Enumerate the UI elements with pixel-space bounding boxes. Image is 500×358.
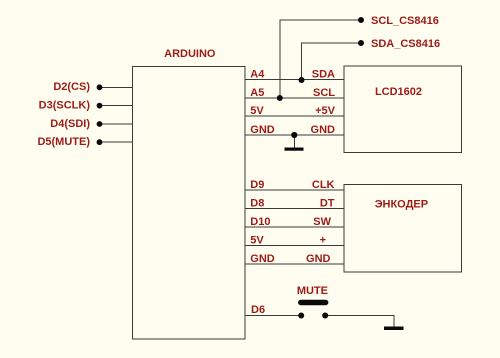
svg-text:ARDUINO: ARDUINO (164, 48, 216, 60)
svg-text:DT: DT (320, 198, 335, 210)
svg-text:SCL_CS8416: SCL_CS8416 (371, 15, 439, 27)
svg-text:A5: A5 (250, 87, 264, 99)
svg-text:A4: A4 (250, 69, 265, 81)
svg-text:+5V: +5V (315, 105, 336, 117)
svg-text:5V: 5V (250, 105, 264, 117)
svg-text:GND: GND (306, 253, 331, 265)
svg-text:D10: D10 (250, 216, 270, 228)
svg-text:MUTE: MUTE (297, 285, 328, 297)
svg-text:GND: GND (250, 124, 274, 136)
svg-text:GND: GND (250, 253, 274, 265)
svg-text:SW: SW (313, 216, 331, 228)
svg-text:D3(SCLK): D3(SCLK) (39, 99, 91, 111)
svg-text:SDA_CS8416: SDA_CS8416 (371, 38, 440, 50)
svg-text:D6: D6 (251, 304, 265, 316)
svg-text:SCL: SCL (313, 87, 335, 99)
svg-text:GND: GND (311, 124, 336, 136)
svg-text:D8: D8 (250, 198, 264, 210)
svg-text:LCD1602: LCD1602 (375, 86, 422, 98)
svg-text:SDA: SDA (312, 69, 335, 81)
svg-text:D9: D9 (250, 179, 264, 191)
svg-text:+: + (320, 235, 326, 247)
svg-text:CLK: CLK (312, 179, 335, 191)
svg-text:5V: 5V (250, 235, 264, 247)
svg-text:ЭНКОДЕР: ЭНКОДЕР (375, 199, 428, 211)
svg-text:D5(MUTE): D5(MUTE) (37, 136, 90, 148)
svg-text:D4(SDI): D4(SDI) (50, 118, 90, 130)
svg-text:D2(CS): D2(CS) (53, 81, 90, 93)
